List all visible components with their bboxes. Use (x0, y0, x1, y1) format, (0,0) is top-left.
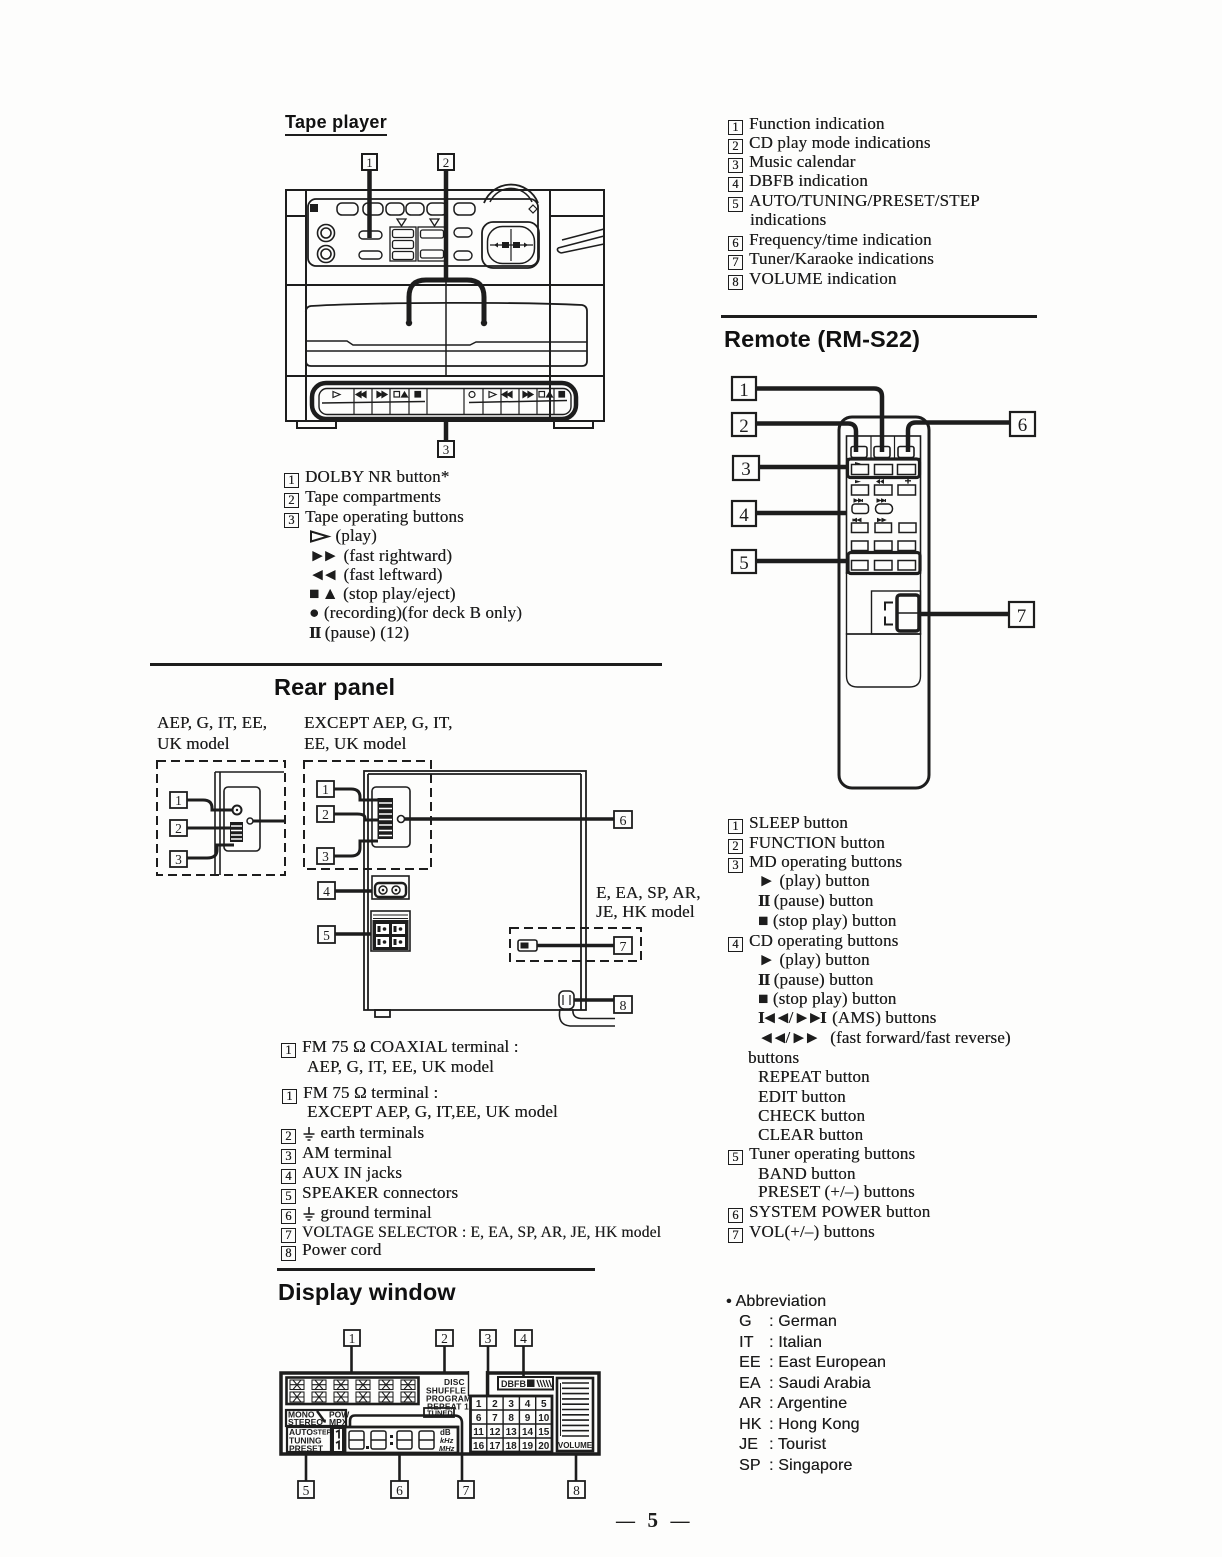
svg-text:13: 13 (506, 1427, 518, 1438)
tape compartment bracket (406, 280, 487, 326)
svg-text:MHz: MHz (439, 1444, 455, 1453)
volume bar (557, 1378, 593, 1451)
power square (310, 204, 318, 212)
callout 5 (318, 926, 371, 943)
svg-text:STEREO: STEREO (288, 1417, 323, 1427)
device body outline (286, 190, 604, 421)
feet (297, 421, 593, 428)
svg-text:1: 1 (366, 155, 373, 170)
svg-text:2: 2 (739, 416, 749, 437)
display frame (281, 1373, 599, 1454)
side handle (557, 229, 604, 253)
svg-text:VOLUME: VOLUME (558, 1441, 593, 1450)
top button row (851, 447, 914, 458)
callout 6 + leader (405, 811, 633, 829)
music calendar (471, 1396, 553, 1452)
svg-text:11: 11 (473, 1427, 484, 1438)
svg-text:7: 7 (1017, 606, 1027, 627)
svg-text:4: 4 (323, 884, 330, 899)
top button row (337, 203, 475, 215)
svg-text:19: 19 (522, 1441, 534, 1452)
callout 2 (438, 154, 454, 280)
rear panel model labels (157, 713, 267, 733)
svg-text:1: 1 (349, 1331, 356, 1346)
rule above Remote heading (721, 315, 1037, 318)
tuner heavy group (848, 553, 920, 574)
svg-text:3: 3 (485, 1331, 492, 1346)
diamond (529, 205, 537, 213)
svg-text:3: 3 (443, 442, 450, 457)
svg-text:1: 1 (476, 1399, 482, 1410)
svg-text:2: 2 (492, 1399, 498, 1410)
ground screw (left) (247, 818, 253, 824)
white notch (469, 1370, 487, 1396)
right deck buttons (418, 227, 446, 261)
callout 5 (732, 550, 849, 574)
callout 2 (left box) (170, 820, 230, 836)
callout 2 (middle) (317, 806, 378, 822)
callout 2 (732, 413, 856, 452)
DBFB indicator (498, 1377, 553, 1390)
callout 4 (732, 501, 847, 526)
svg-text:3: 3 (741, 459, 751, 480)
mid-right buttons (454, 228, 472, 237)
row 3 (852, 478, 916, 495)
svg-text:2: 2 (175, 821, 182, 836)
VOL rocker (897, 595, 919, 631)
SPEAKER connectors (371, 911, 410, 951)
left device edge (215, 772, 284, 875)
FM coaxial terminal (233, 806, 242, 815)
bracket marks (885, 603, 893, 625)
svg-text:3: 3 (322, 849, 329, 864)
svg-text:20: 20 (538, 1441, 550, 1452)
svg-text:8: 8 (508, 1413, 514, 1424)
svg-text:17: 17 (489, 1441, 501, 1452)
svg-text:6: 6 (620, 814, 627, 829)
svg-text:6: 6 (396, 1483, 403, 1498)
svg-text:14: 14 (522, 1427, 534, 1438)
jog pad (482, 222, 539, 268)
callout 3 (middle) (317, 841, 378, 864)
svg-text:8: 8 (573, 1483, 580, 1498)
callout 3 leader (487, 1346, 490, 1396)
svg-text:3: 3 (175, 852, 182, 867)
FM/AM terminal block (middle) (378, 798, 394, 839)
svg-text:1: 1 (739, 380, 749, 401)
callout 4 (318, 882, 372, 899)
svg-text:18: 18 (506, 1441, 518, 1452)
preset digit box (333, 1428, 343, 1452)
rule above Rear panel (150, 663, 662, 666)
CD mode text (426, 1377, 471, 1412)
svg-text:7: 7 (463, 1483, 470, 1498)
AUTO/TUNING/PRESET block (287, 1427, 332, 1454)
svg-text:5: 5 (739, 553, 749, 574)
left terminal panel (224, 787, 260, 851)
callout 1 (left box) (170, 792, 232, 810)
svg-text:10: 10 (538, 1413, 550, 1424)
callout 1 (middle) (317, 781, 378, 800)
svg-text:1: 1 (175, 793, 182, 808)
callout 7 (614, 937, 632, 955)
bottom seam (847, 634, 921, 687)
svg-text:6: 6 (476, 1413, 482, 1424)
callout 6 (908, 412, 1035, 452)
top callouts (344, 1330, 532, 1378)
callout 3 (438, 419, 454, 457)
MONO/STEREO block (286, 1410, 350, 1428)
lower panel (847, 573, 921, 634)
svg-text:DBFB: DBFB (501, 1379, 526, 1389)
remote body (839, 417, 929, 788)
center divider (445, 199, 447, 376)
svg-text:2: 2 (441, 1331, 448, 1346)
AM terminal block (left) (230, 822, 243, 842)
svg-text:6: 6 (1018, 415, 1028, 436)
7-seg calendar digits box (287, 1378, 419, 1405)
cassette door (306, 303, 587, 366)
control panel (308, 199, 538, 266)
dolby button + lower button (359, 231, 382, 239)
dial arc (484, 185, 538, 203)
svg-text:5: 5 (323, 928, 330, 943)
voltage selector (518, 940, 614, 951)
svg-text:1: 1 (322, 782, 329, 797)
svg-text:5: 5 (541, 1399, 547, 1410)
bottom callouts (298, 1416, 585, 1499)
callout 3 (733, 456, 849, 480)
svg-text:4: 4 (520, 1331, 527, 1346)
svg-text:PRESET: PRESET (289, 1444, 324, 1454)
knobs (318, 225, 335, 263)
callout 1 (362, 154, 377, 238)
svg-text:7: 7 (620, 940, 627, 955)
svg-text:2: 2 (443, 155, 450, 170)
svg-text:MPX: MPX (329, 1417, 348, 1427)
voltage selector dashed box (510, 928, 641, 961)
callout 8 (574, 996, 632, 1014)
row 5 (852, 519, 917, 533)
callout 7 (918, 602, 1034, 627)
row 6 (852, 541, 916, 551)
svg-text:4: 4 (525, 1399, 531, 1410)
big rear panel outline (364, 771, 586, 1017)
left dashed model box (157, 761, 285, 875)
TUNED box (424, 1408, 454, 1418)
svg-text:9: 9 (525, 1413, 531, 1424)
svg-text:7: 7 (492, 1413, 498, 1424)
svg-text:5: 5 (303, 1483, 310, 1498)
svg-text:16: 16 (473, 1441, 485, 1452)
middle dashed model box (304, 761, 431, 869)
power cord (559, 991, 615, 1026)
page number (616, 1508, 691, 1533)
keypad panel (847, 436, 921, 573)
rule above Display window (277, 1268, 595, 1271)
callout 1 (732, 377, 882, 452)
callout 3 (left box) (170, 845, 234, 867)
ground screw (middle) (398, 816, 405, 823)
frequency display box (345, 1427, 458, 1453)
transport bar (312, 383, 576, 419)
svg-text:8: 8 (620, 999, 627, 1014)
svg-text:3: 3 (508, 1399, 514, 1410)
middle terminal panel (372, 787, 410, 847)
left deck buttons (390, 227, 416, 261)
deck markers (397, 219, 439, 226)
transport symbols (333, 392, 565, 398)
svg-text:4: 4 (739, 505, 749, 526)
svg-text:12: 12 (489, 1427, 501, 1438)
svg-text:2: 2 (322, 807, 329, 822)
svg-text:15: 15 (538, 1427, 550, 1438)
MD heavy group (848, 459, 920, 478)
row 4 ovals (852, 499, 893, 514)
AUX IN jacks (372, 876, 409, 899)
